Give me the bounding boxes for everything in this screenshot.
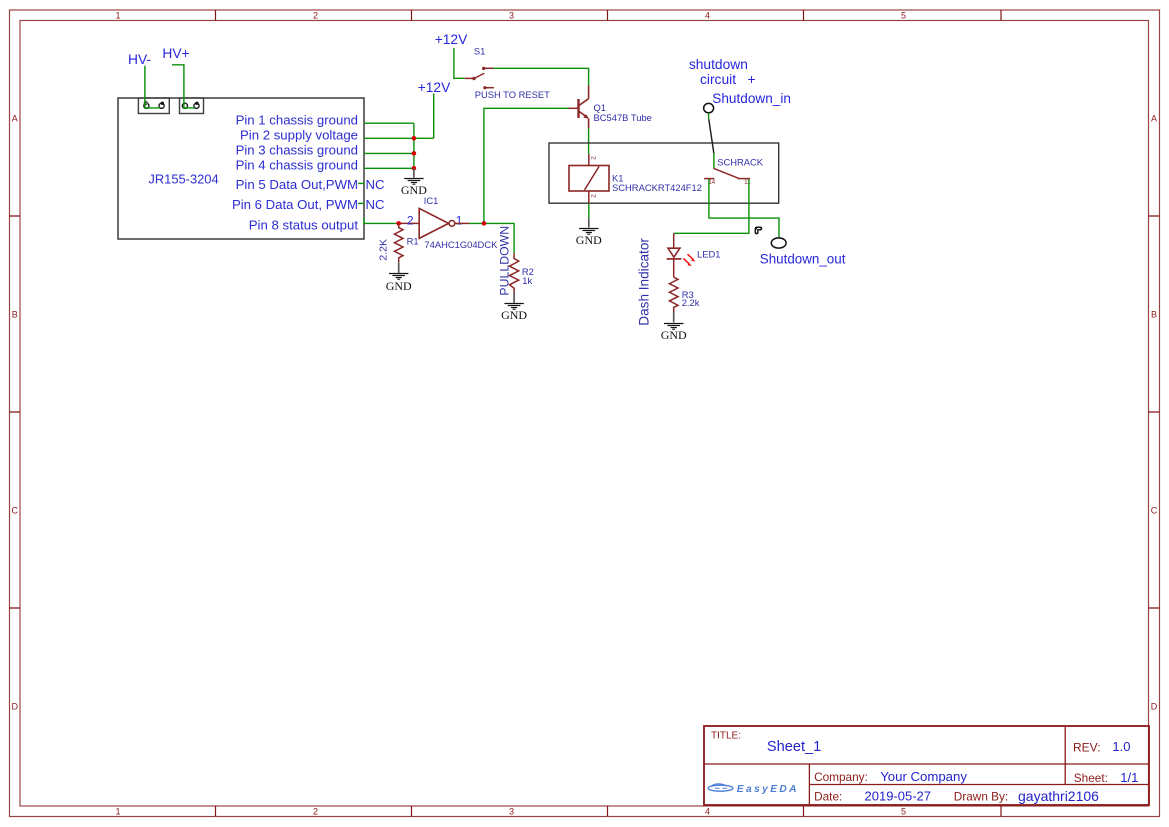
- svg-text:+12V: +12V: [418, 80, 451, 95]
- hook no-connect glyph: [755, 227, 763, 235]
- wire to LED anode: [673, 233, 675, 248]
- svg-text:1.0: 1.0: [1112, 739, 1130, 754]
- connector J1 pin marks: [144, 101, 149, 106]
- svg-text:2: 2: [407, 213, 414, 227]
- wire IC1 out to Q1 base: [569, 107, 578, 109]
- svg-text:Pin 8 status output: Pin 8 status output: [249, 218, 359, 233]
- svg-text:Shutdown_out: Shutdown_out: [760, 252, 846, 267]
- junction R1 top: [396, 221, 401, 226]
- svg-text:1: 1: [115, 807, 120, 817]
- svg-text:2: 2: [313, 11, 318, 21]
- ground relay GND: [576, 218, 602, 247]
- connector J2 box: [180, 98, 204, 114]
- wire coil to GND: [588, 204, 590, 219]
- Q1 emitter arrow head: [583, 114, 589, 119]
- wire pin2 to +12V: [364, 137, 434, 139]
- pin5 NC stub: [358, 182, 364, 184]
- wire LED to R3: [673, 259, 675, 277]
- svg-text:Pin 4 chassis ground: Pin 4 chassis ground: [236, 157, 358, 172]
- svg-text:BC547B Tube: BC547B Tube: [594, 112, 652, 123]
- svg-text:S1: S1: [474, 46, 485, 57]
- svg-text:1/1: 1/1: [1120, 770, 1138, 785]
- relay coil K1: [569, 166, 609, 192]
- relay switch SCHRACK blade: [714, 168, 739, 178]
- svg-text:D: D: [1151, 702, 1158, 712]
- wire red to IC1 input: [396, 222, 419, 224]
- resistor R2: [510, 253, 519, 292]
- svg-text:5: 5: [901, 11, 906, 21]
- wire pin4 to bus: [364, 167, 414, 169]
- wire IC1 output red: [455, 222, 470, 224]
- svg-text:shutdown: shutdown: [689, 57, 748, 72]
- svg-text:Pin 6 Data Out, PWM: Pin 6 Data Out, PWM: [232, 197, 358, 212]
- frame column labels top: [115, 11, 906, 21]
- svg-text:TITLE:: TITLE:: [711, 730, 741, 741]
- svg-text:D: D: [11, 702, 18, 712]
- wire +12V to S1: [454, 48, 465, 78]
- svg-text:3: 3: [509, 11, 514, 21]
- svg-text:Drawn By:: Drawn By:: [954, 790, 1008, 804]
- svg-text:LED1: LED1: [697, 248, 720, 259]
- svg-text:NC: NC: [366, 197, 386, 212]
- wire pin8 to IC1: [364, 218, 396, 224]
- svg-text:Your Company: Your Company: [880, 769, 967, 784]
- svg-text:Pin 5 Data Out,PWM: Pin 5 Data Out,PWM: [236, 177, 358, 192]
- relay coil diagonal: [585, 167, 600, 191]
- relay coil pin stub bottom: [588, 191, 590, 203]
- svg-text:+12V: +12V: [435, 32, 468, 47]
- junction bus pin3: [412, 151, 417, 156]
- svg-text:REV:: REV:: [1073, 741, 1101, 755]
- svg-text:B: B: [1151, 310, 1157, 320]
- svg-text:3: 3: [509, 807, 514, 817]
- wire bus vertical: [413, 123, 415, 168]
- wire pin3 to bus: [364, 152, 414, 154]
- svg-text:HV+: HV+: [162, 46, 189, 61]
- wire pin1 to bus: [364, 122, 414, 124]
- svg-text:11: 11: [744, 180, 751, 186]
- wire IC1 output green: [469, 223, 514, 253]
- op-amp IC1 inverter: [419, 208, 448, 238]
- svg-text:2.2k: 2.2k: [682, 297, 700, 308]
- relay contact 14 bar: [704, 178, 714, 180]
- switch S1: [465, 67, 494, 90]
- wire HV-: [145, 66, 160, 108]
- svg-text:2: 2: [313, 807, 318, 817]
- wire Shutdown_in black: [709, 119, 714, 153]
- wire Shutdown_in stub: [708, 113, 710, 120]
- svg-text:HV-: HV-: [128, 52, 151, 67]
- wire S1 to Q1 collector: [493, 68, 588, 85]
- junction bus pin2: [412, 136, 417, 141]
- svg-text:GND: GND: [576, 233, 602, 247]
- svg-text:1: 1: [115, 11, 120, 21]
- svg-text:Sheet_1: Sheet_1: [767, 739, 821, 755]
- svg-text:4: 4: [705, 807, 710, 817]
- svg-text:PULLDOWN: PULLDOWN: [498, 226, 512, 296]
- LED LED1: [667, 248, 696, 266]
- svg-text:IC1: IC1: [424, 195, 439, 206]
- frame row labels left: [11, 114, 18, 712]
- frame row labels right: [1151, 114, 1158, 712]
- svg-text:GND: GND: [661, 328, 687, 342]
- svg-text:1k: 1k: [522, 275, 532, 286]
- ground bus GND: [401, 168, 427, 197]
- svg-text:PUSH TO RESET: PUSH TO RESET: [475, 89, 550, 100]
- resistor R3: [669, 277, 678, 312]
- junction bus pin4: [412, 166, 417, 171]
- svg-text:R1: R1: [407, 236, 419, 247]
- svg-text:Pin 2 supply voltage: Pin 2 supply voltage: [240, 127, 358, 142]
- svg-text:EasyEDA: EasyEDA: [737, 784, 799, 795]
- svg-text:Pin 3 chassis ground: Pin 3 chassis ground: [236, 142, 358, 157]
- svg-text:JR155-3204: JR155-3204: [148, 171, 218, 186]
- svg-text:2: 2: [590, 194, 597, 198]
- pin6 NC stub: [358, 202, 364, 204]
- svg-text:Shutdown_in: Shutdown_in: [712, 91, 791, 106]
- svg-text:4: 4: [705, 11, 710, 21]
- svg-text:GND: GND: [386, 279, 412, 293]
- IC1 bubble: [449, 221, 455, 227]
- svg-text:NC: NC: [366, 177, 386, 192]
- port Shutdown_in: [704, 103, 714, 112]
- svg-text:74AHC1G04DCK: 74AHC1G04DCK: [424, 239, 498, 250]
- svg-text:SCHRACKRT424F12: SCHRACKRT424F12: [612, 182, 702, 193]
- module JR155-3204 box: [118, 98, 364, 239]
- wire pin11 to LED: [674, 179, 749, 233]
- svg-text:circuit +: circuit +: [700, 72, 756, 87]
- svg-text:gayathri2106: gayathri2106: [1018, 788, 1099, 804]
- svg-text:B: B: [12, 310, 18, 320]
- junction IC1 out: [482, 221, 487, 226]
- svg-text:A: A: [12, 114, 18, 124]
- connector J2 pads: [182, 103, 187, 108]
- ground R1 GND: [386, 262, 412, 293]
- connector J1 pads: [144, 103, 149, 108]
- svg-text:Pin 1 chassis ground: Pin 1 chassis ground: [236, 112, 358, 127]
- port Shutdown_out: [771, 238, 786, 248]
- ground R3 GND: [661, 313, 687, 343]
- svg-text:SCHRACK: SCHRACK: [717, 157, 764, 168]
- connector J2 pin mark: [195, 102, 198, 105]
- wire to switch pivot: [713, 154, 715, 169]
- svg-text:GND: GND: [501, 308, 527, 322]
- relay coil pin stub top: [588, 154, 590, 165]
- svg-text:Sheet:: Sheet:: [1074, 771, 1108, 785]
- svg-text:C: C: [1151, 506, 1158, 516]
- wire Q1 emitter to relay coil: [588, 128, 590, 154]
- wire HV+: [172, 65, 195, 108]
- svg-text:5: 5: [901, 807, 906, 817]
- relay contact 11 bar: [738, 178, 750, 180]
- wire +12V drop: [433, 94, 435, 139]
- wire pin14 to Shutdown_out: [709, 179, 779, 237]
- svg-text:A: A: [1151, 114, 1157, 124]
- relay K1 outer box: [549, 143, 779, 203]
- svg-text:2: 2: [590, 156, 597, 160]
- svg-text:C: C: [11, 506, 18, 516]
- transistor Q1: [579, 86, 589, 129]
- frame column labels bottom: [115, 807, 906, 817]
- svg-text:Date:: Date:: [814, 790, 842, 804]
- title block: [704, 726, 1149, 805]
- EasyEDA logo: [708, 784, 733, 791]
- svg-text:2.2K: 2.2K: [378, 239, 390, 261]
- ground R2 GND: [501, 293, 527, 323]
- resistor R1: [394, 223, 403, 262]
- svg-text:2019-05-27: 2019-05-27: [865, 788, 932, 803]
- svg-text:Company:: Company:: [814, 770, 868, 784]
- svg-text:1: 1: [456, 213, 463, 227]
- connector J1 box: [138, 98, 169, 114]
- svg-text:Dash Indicator: Dash Indicator: [637, 238, 652, 326]
